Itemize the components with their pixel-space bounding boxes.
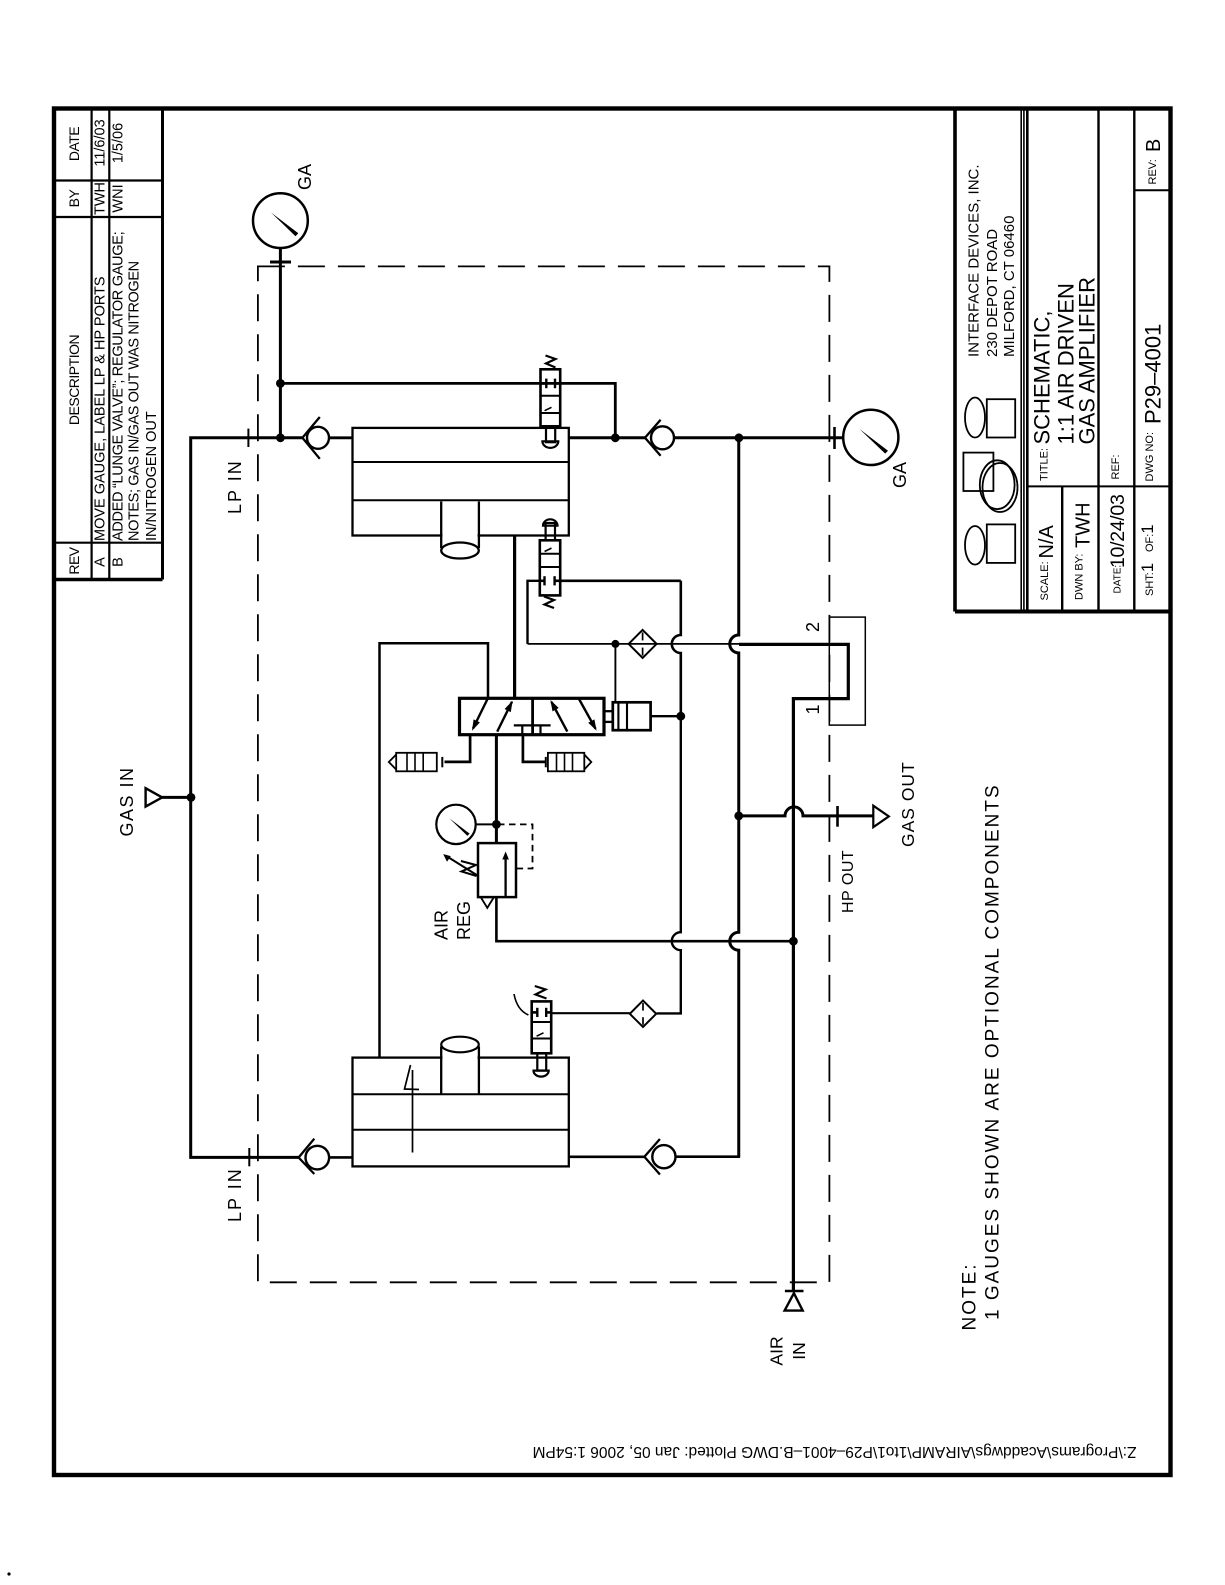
gauge GA2	[843, 410, 898, 465]
pilot valve V3 port ticks	[532, 1011, 538, 1014]
muffler M1	[396, 753, 437, 772]
wire LP IN upper rail	[191, 438, 302, 1158]
svg-text:REV:: REV:	[1147, 159, 1159, 184]
pilot valve V3 stem	[537, 1053, 546, 1070]
svg-text:GA: GA	[890, 462, 910, 488]
cylinder CYL1 body	[353, 428, 569, 536]
staple wire to valve ports	[380, 643, 489, 1057]
border frame	[54, 109, 1171, 1476]
svg-text:DESCRIPTION: DESCRIPTION	[66, 335, 82, 425]
logo ellipse bottom-left	[965, 526, 985, 565]
pilot valve V1 plunger cap	[542, 441, 558, 448]
pilot valve V2 body	[540, 540, 560, 595]
port tick LP IN upper	[247, 429, 249, 447]
cylinder CYL2 rod	[443, 1050, 478, 1093]
logo double ellipse mid	[983, 463, 1018, 512]
svg-text:TITLE:: TITLE:	[1039, 448, 1051, 481]
gauge AIR REG	[436, 805, 475, 844]
svg-text:MILFORD, CT 06460: MILFORD, CT 06460	[1001, 216, 1018, 357]
scan artifact dot	[7, 1572, 10, 1575]
plot stamp	[533, 1443, 1137, 1460]
logo ellipse top-left	[965, 398, 985, 438]
junction filter branch	[611, 640, 619, 648]
wire CYL2 right to check valve CV4	[569, 1156, 645, 1159]
svg-text:WNI: WNI	[111, 184, 127, 212]
svg-text:IN: IN	[789, 1342, 809, 1360]
V4 left box crossed flow arrows	[473, 699, 488, 729]
svg-text:TWH: TWH	[93, 182, 109, 215]
svg-text:ADDED “LUNGE VALVE”; REGULATOR: ADDED “LUNGE VALVE”; REGULATOR GAUGE;	[111, 232, 127, 541]
rev table grid	[54, 109, 163, 580]
svg-text:TWH: TWH	[1073, 502, 1095, 548]
wire CYL1 rod port to valve	[513, 536, 516, 699]
svg-text:DATE: DATE	[66, 127, 82, 161]
svg-text:Z:\Programs\Acaddwgs\AIRAMP\1t: Z:\Programs\Acaddwgs\AIRAMP\1to1\P29–400…	[533, 1443, 1137, 1460]
V4 pilot nub	[604, 711, 613, 722]
check valve CV2	[651, 426, 674, 449]
AIR IN tick	[785, 1290, 804, 1293]
pilot valve V1 spring	[546, 356, 556, 368]
svg-text:1: 1	[803, 704, 823, 714]
pilot valve V1 port ticks	[541, 382, 547, 385]
svg-text:A: A	[93, 557, 109, 567]
junction regulator gauge	[492, 820, 501, 829]
svg-text:GA: GA	[295, 164, 315, 190]
gauge GA1 tick	[270, 261, 291, 264]
wire pilot line upper	[280, 383, 615, 437]
svg-text:1/5/06: 1/5/06	[111, 123, 127, 163]
muffler M2 tick	[545, 757, 547, 767]
svg-text:B: B	[111, 557, 127, 567]
junction LP line / gauge riser	[276, 433, 285, 442]
svg-text:1 GAUGES SHOWN ARE OPTIONAL CO: 1 GAUGES SHOWN ARE OPTIONAL COMPONENTS	[983, 783, 1004, 1320]
pilot valve V3 artifact arc	[514, 994, 528, 1015]
svg-text:AIR: AIR	[432, 910, 452, 940]
title block grid	[955, 109, 1171, 612]
svg-text:GAS OUT: GAS OUT	[898, 761, 918, 847]
wire CYL2 left to check valve CV3	[329, 1156, 352, 1159]
wire CYL1 right to CV2	[569, 436, 645, 439]
wire V2 left leg	[528, 581, 540, 644]
wire line 2 thin run	[528, 643, 740, 645]
title block	[955, 109, 1171, 612]
regulator flow arrow	[504, 856, 506, 897]
port tick LP IN lower	[248, 1148, 250, 1166]
muffler M2	[548, 753, 584, 772]
svg-text:REF:: REF:	[1110, 454, 1122, 479]
svg-text:LP IN: LP IN	[225, 1167, 245, 1222]
V4 pilot actuator	[613, 702, 651, 730]
cylinder CYL1 piston lines	[353, 461, 569, 463]
wire line 2 heavy run and line 1	[739, 644, 848, 1290]
junction air line	[789, 937, 798, 946]
svg-text:N/A: N/A	[1036, 525, 1058, 559]
svg-text:MOVE GAUGE, LABEL LP & HP PORT: MOVE GAUGE, LABEL LP & HP PORTS	[93, 276, 109, 541]
wire V3 to filter F2	[551, 1012, 630, 1014]
port tick HP gauge	[833, 427, 836, 449]
junction HP riser	[735, 433, 744, 442]
wire CV2 to gauge GA2	[674, 436, 844, 439]
wire regulated supply port B	[495, 735, 498, 843]
pilot valve V3 spring	[535, 986, 547, 999]
svg-text:HP OUT: HP OUT	[840, 850, 857, 913]
junction pilot line drop	[611, 433, 620, 442]
svg-text:AIR: AIR	[767, 1336, 787, 1365]
HP riser with crossover hops	[730, 438, 739, 1157]
filter F1	[629, 630, 657, 658]
svg-text:2: 2	[803, 622, 823, 632]
svg-text:DWG NO:: DWG NO:	[1144, 432, 1156, 482]
wire exhaust port A	[445, 735, 471, 762]
gauge GA1 stem	[279, 247, 282, 438]
pilot valve V2 stem	[546, 523, 555, 540]
port block	[829, 617, 865, 725]
pilot valve V1 stem	[546, 426, 555, 442]
V4 right box flow arrows	[552, 702, 568, 732]
cylinder CYL1 rod	[443, 502, 478, 547]
wire LP IN to check valve CV1	[329, 436, 353, 439]
wire CV4 to HP riser	[676, 1155, 741, 1158]
regulator adjust arrow	[446, 856, 478, 876]
V4 blocked center ports	[514, 724, 551, 726]
revision table	[54, 109, 163, 580]
wire drop to pilot actuator with hop	[672, 581, 681, 716]
junction GAS OUT tap	[734, 812, 743, 821]
wire regulator gauge	[476, 823, 497, 825]
regulator pilot dashed line	[498, 824, 533, 868]
svg-text:NOTES; GAS IN/GAS OUT WAS NITR: NOTES; GAS IN/GAS OUT WAS NITROGEN	[127, 261, 143, 541]
svg-text:BY: BY	[66, 189, 82, 208]
svg-text:GAS IN: GAS IN	[117, 766, 137, 836]
port tick GAS OUT	[836, 806, 839, 827]
gauge GA1 needle	[271, 213, 298, 237]
wire V2 right to drop	[560, 579, 681, 582]
logo square bottom-right	[987, 524, 1015, 563]
svg-text:SCHEMATIC,: SCHEMATIC,	[1030, 310, 1055, 444]
GAS OUT arrow	[873, 806, 889, 827]
svg-text:10/24/03: 10/24/03	[1107, 494, 1129, 568]
wire GAS OUT with hop	[739, 807, 874, 816]
svg-text:INTERFACE DEVICES, INC.: INTERFACE DEVICES, INC.	[966, 164, 983, 357]
svg-text:DWN BY:: DWN BY:	[1074, 554, 1086, 600]
wire exhaust port C	[523, 735, 547, 762]
wire regulator output	[496, 897, 793, 941]
svg-text:LP IN: LP IN	[225, 459, 245, 514]
svg-text:IN/NITROGEN OUT: IN/NITROGEN OUT	[144, 411, 160, 541]
check valve CV1	[307, 427, 329, 449]
logo square mid-left	[963, 453, 993, 491]
svg-text:P29–4001: P29–4001	[1141, 324, 1166, 424]
wire branch to actuator top	[614, 644, 616, 702]
svg-text:B: B	[1143, 139, 1165, 152]
check valve CV3	[306, 1146, 330, 1170]
pilot valve V2 port ticks	[540, 579, 545, 582]
4-way valve V4 body	[460, 698, 605, 734]
cylinder CYL2 piston lines	[353, 1093, 569, 1095]
svg-text:REV: REV	[66, 546, 82, 574]
wire drop junction to corner with hop	[657, 716, 681, 1013]
regulator vent	[481, 897, 494, 908]
AIR IN arrow	[785, 1293, 803, 1310]
svg-text:GAS AMPLIFIER: GAS AMPLIFIER	[1075, 277, 1100, 445]
regulator REG1 body	[478, 843, 516, 897]
muffler M1 tick	[441, 757, 443, 767]
junction actuator drop	[676, 712, 685, 721]
logo square top-right	[987, 399, 1015, 437]
pilot valve V2 spring	[544, 597, 554, 609]
svg-text:11/6/03: 11/6/03	[93, 119, 109, 166]
svg-text:NOTE:: NOTE:	[960, 1262, 981, 1330]
regulator spring	[461, 861, 477, 876]
pilot valve V1 body	[541, 369, 561, 426]
pilot valve V2 plunger cap	[543, 519, 558, 525]
cylinder CYL2 body	[353, 1058, 569, 1167]
svg-text:230 DEPOT ROAD: 230 DEPOT ROAD	[984, 229, 1001, 357]
svg-text:SCALE:: SCALE:	[1039, 561, 1051, 600]
junction gauge riser to pilot line	[276, 379, 285, 388]
pilot valve V3 plunger cap	[534, 1071, 549, 1077]
CYL2 handwritten 4 artifact	[405, 1065, 420, 1153]
svg-text:REG: REG	[454, 901, 474, 940]
wire GAS IN to rail	[162, 796, 191, 799]
svg-text:DATE:: DATE:	[1113, 565, 1124, 594]
junction GAS IN	[187, 793, 196, 802]
check valve CV4	[652, 1145, 675, 1168]
pilot valve V3 body	[532, 1001, 552, 1053]
gauge GA1	[253, 193, 308, 248]
wire actuator to drop	[651, 715, 681, 717]
optional components dashed enclosure	[258, 266, 830, 1282]
filter F2	[630, 1001, 656, 1027]
gauge GA2 needle	[860, 429, 889, 454]
gauge AIR REG needle	[449, 818, 469, 836]
GAS IN arrow	[146, 788, 163, 806]
